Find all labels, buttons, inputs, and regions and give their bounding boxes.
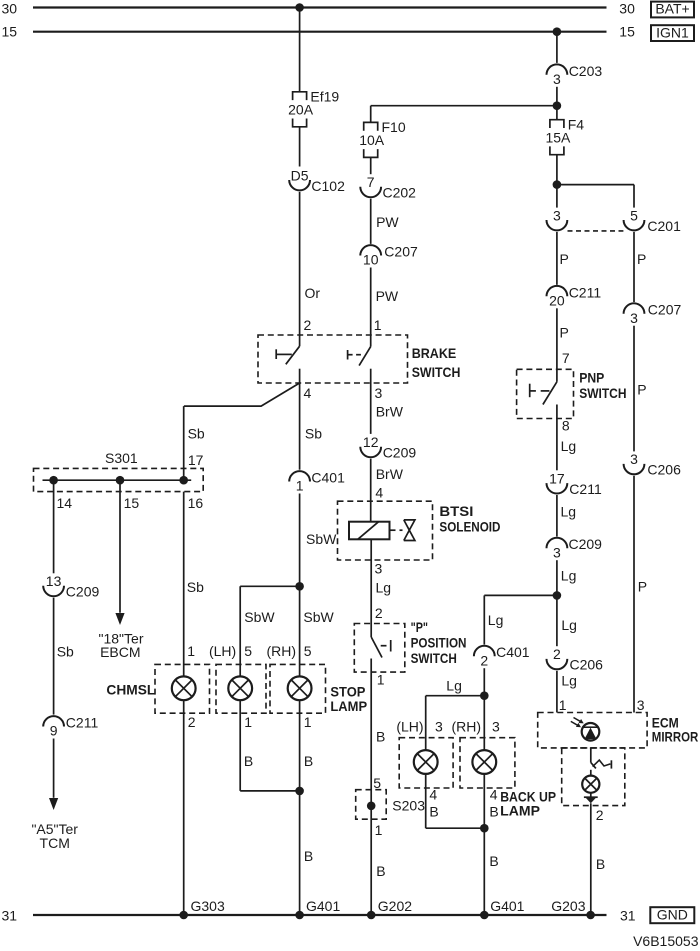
svg-text:1: 1 xyxy=(244,714,252,730)
svg-text:8: 8 xyxy=(562,417,570,433)
svg-text:30: 30 xyxy=(619,0,635,16)
svg-text:3: 3 xyxy=(630,310,638,326)
svg-text:1: 1 xyxy=(304,714,312,730)
svg-text:SWITCH: SWITCH xyxy=(579,385,626,401)
svg-text:15: 15 xyxy=(124,495,140,511)
svg-text:1: 1 xyxy=(187,643,195,659)
svg-text:7: 7 xyxy=(562,350,570,366)
svg-text:3: 3 xyxy=(553,207,561,223)
svg-text:2: 2 xyxy=(480,652,488,668)
svg-text:B: B xyxy=(376,728,385,744)
svg-text:5: 5 xyxy=(244,643,252,659)
svg-text:P: P xyxy=(638,578,647,594)
svg-text:C209: C209 xyxy=(569,536,603,552)
svg-text:PNP: PNP xyxy=(579,370,604,386)
svg-text:S301: S301 xyxy=(105,450,138,466)
svg-text:BrW: BrW xyxy=(376,466,404,482)
svg-text:1: 1 xyxy=(377,672,385,688)
svg-text:(LH): (LH) xyxy=(209,643,236,659)
svg-text:3: 3 xyxy=(492,719,500,735)
svg-text:14: 14 xyxy=(57,495,73,511)
svg-text:5: 5 xyxy=(373,775,381,791)
svg-text:SbW: SbW xyxy=(244,609,275,625)
svg-text:G401: G401 xyxy=(306,898,340,914)
svg-text:1: 1 xyxy=(374,317,382,333)
svg-text:Sb: Sb xyxy=(57,644,74,660)
svg-text:C401: C401 xyxy=(311,470,345,486)
svg-text:SWITCH: SWITCH xyxy=(411,650,457,666)
svg-text:Lg: Lg xyxy=(561,617,577,633)
svg-text:30: 30 xyxy=(2,0,18,16)
svg-text:C206: C206 xyxy=(647,462,681,478)
svg-text:B: B xyxy=(429,804,438,820)
svg-text:Ef19: Ef19 xyxy=(310,89,339,105)
svg-text:5: 5 xyxy=(304,643,312,659)
svg-text:Sb: Sb xyxy=(187,579,204,595)
svg-text:SbW: SbW xyxy=(306,531,337,547)
svg-text:IGN1: IGN1 xyxy=(656,24,689,40)
svg-text:Lg: Lg xyxy=(446,678,462,694)
svg-text:P: P xyxy=(637,382,646,398)
svg-text:B: B xyxy=(596,856,605,872)
svg-text:4: 4 xyxy=(490,787,498,803)
svg-text:C102: C102 xyxy=(311,178,345,194)
svg-text:20A: 20A xyxy=(288,101,314,117)
svg-text:Lg: Lg xyxy=(561,672,577,688)
svg-text:3: 3 xyxy=(637,697,645,713)
svg-text:B: B xyxy=(304,848,313,864)
svg-text:C401: C401 xyxy=(496,644,530,660)
svg-text:"P": "P" xyxy=(411,619,428,635)
svg-text:Lg: Lg xyxy=(376,580,392,596)
svg-text:C209: C209 xyxy=(383,445,417,461)
svg-text:1: 1 xyxy=(559,697,567,713)
svg-text:P: P xyxy=(560,325,569,341)
svg-text:2: 2 xyxy=(375,605,383,621)
svg-text:B: B xyxy=(489,804,498,820)
svg-text:2: 2 xyxy=(553,646,561,662)
svg-text:7: 7 xyxy=(367,174,375,190)
svg-text:B: B xyxy=(244,753,253,769)
svg-text:17: 17 xyxy=(549,470,565,486)
svg-text:3: 3 xyxy=(553,544,561,560)
svg-text:SWITCH: SWITCH xyxy=(412,364,461,380)
svg-text:2: 2 xyxy=(596,807,604,823)
svg-text:P: P xyxy=(637,251,646,267)
svg-text:2: 2 xyxy=(188,714,196,730)
svg-text:10A: 10A xyxy=(359,132,385,148)
svg-text:B: B xyxy=(304,753,313,769)
svg-text:G203: G203 xyxy=(551,898,585,914)
svg-text:13: 13 xyxy=(46,573,62,589)
svg-text:Sb: Sb xyxy=(305,426,322,442)
svg-text:(RH): (RH) xyxy=(451,719,481,735)
svg-text:Lg: Lg xyxy=(488,612,504,628)
svg-text:GND: GND xyxy=(657,907,688,923)
svg-text:C211: C211 xyxy=(569,481,602,497)
svg-text:S203: S203 xyxy=(392,798,425,814)
svg-text:Lg: Lg xyxy=(561,504,577,520)
svg-text:Lg: Lg xyxy=(561,568,577,584)
svg-text:4: 4 xyxy=(304,385,312,401)
svg-text:17: 17 xyxy=(188,452,204,468)
svg-text:SOLENOID: SOLENOID xyxy=(439,519,500,535)
svg-text:P: P xyxy=(560,251,569,267)
svg-text:1: 1 xyxy=(296,478,304,494)
svg-text:1: 1 xyxy=(375,822,383,838)
svg-text:F10: F10 xyxy=(382,119,406,135)
svg-text:Lg: Lg xyxy=(561,438,577,454)
svg-text:C202: C202 xyxy=(383,185,417,201)
svg-text:15: 15 xyxy=(619,24,635,40)
svg-text:C207: C207 xyxy=(384,244,418,260)
svg-text:12: 12 xyxy=(363,434,379,450)
svg-text:C211: C211 xyxy=(66,715,99,731)
svg-text:(LH): (LH) xyxy=(396,719,423,735)
svg-text:D5: D5 xyxy=(291,167,309,183)
svg-text:PW: PW xyxy=(376,214,399,230)
svg-text:C211: C211 xyxy=(569,284,602,300)
svg-text:BTSI: BTSI xyxy=(439,503,473,519)
svg-text:SbW: SbW xyxy=(303,609,334,625)
svg-text:BAT+: BAT+ xyxy=(655,1,689,17)
svg-text:G401: G401 xyxy=(490,898,524,914)
svg-text:TCM: TCM xyxy=(40,835,70,851)
svg-text:G303: G303 xyxy=(191,898,225,914)
svg-text:V6B15053: V6B15053 xyxy=(633,933,699,949)
svg-text:C203: C203 xyxy=(569,63,603,79)
svg-text:9: 9 xyxy=(50,723,58,739)
svg-text:3: 3 xyxy=(630,451,638,467)
svg-text:POSITION: POSITION xyxy=(411,635,467,651)
svg-text:15: 15 xyxy=(2,24,18,40)
svg-text:4: 4 xyxy=(375,484,383,500)
svg-text:BRAKE: BRAKE xyxy=(412,345,457,361)
svg-text:EBCM: EBCM xyxy=(100,644,140,660)
svg-text:PW: PW xyxy=(376,288,399,304)
svg-text:LAMP: LAMP xyxy=(500,802,540,818)
svg-text:(RH): (RH) xyxy=(266,643,296,659)
svg-text:BrW: BrW xyxy=(376,403,404,419)
svg-text:C201: C201 xyxy=(647,218,681,234)
svg-text:B: B xyxy=(489,853,498,869)
svg-text:CHMSL: CHMSL xyxy=(106,681,155,697)
svg-text:G202: G202 xyxy=(378,898,412,914)
svg-text:3: 3 xyxy=(375,560,383,576)
svg-text:Or: Or xyxy=(305,285,321,301)
svg-text:20: 20 xyxy=(549,293,565,309)
svg-text:16: 16 xyxy=(188,495,204,511)
svg-text:C207: C207 xyxy=(648,302,682,318)
svg-text:MIRROR: MIRROR xyxy=(652,728,699,744)
svg-text:15A: 15A xyxy=(545,129,571,145)
svg-text:5: 5 xyxy=(630,207,638,223)
svg-text:31: 31 xyxy=(620,907,636,923)
svg-text:10: 10 xyxy=(363,252,379,268)
svg-text:31: 31 xyxy=(2,907,18,923)
svg-text:Sb: Sb xyxy=(188,426,205,442)
svg-text:LAMP: LAMP xyxy=(330,698,367,714)
svg-text:B: B xyxy=(376,863,385,879)
svg-text:2: 2 xyxy=(304,317,312,333)
svg-text:4: 4 xyxy=(429,787,437,803)
svg-text:C206: C206 xyxy=(570,657,604,673)
svg-text:3: 3 xyxy=(375,385,383,401)
svg-text:C209: C209 xyxy=(66,584,100,600)
svg-text:3: 3 xyxy=(435,719,443,735)
svg-text:3: 3 xyxy=(553,71,561,87)
